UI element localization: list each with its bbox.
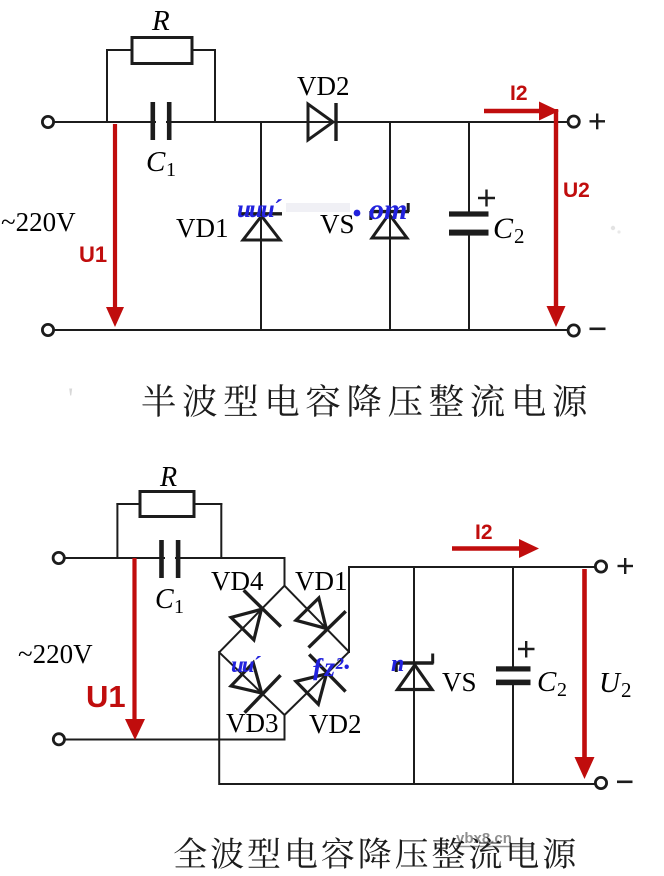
svg-text:VD2: VD2 [309, 709, 362, 739]
svg-text:1: 1 [174, 596, 184, 618]
label - polarity (half-wave) [590, 327, 606, 330]
svg-text:I2: I2 [475, 521, 493, 544]
capacitor C2 plates (half-wave, electrolytic) [449, 211, 489, 216]
wire: bridge edge bottom-left [219, 652, 284, 715]
title: half-wave capacitor step-down rectifier power supply [142, 384, 586, 417]
svg-text:VS: VS [320, 209, 355, 239]
terminal: AC input left-top (full-wave) [53, 552, 64, 563]
wire: top rail (AC line 1, half-wave) [53, 121, 572, 123]
current arrow I2 (half-wave) [484, 109, 542, 113]
wire: R-C1 parallel left branch [106, 49, 108, 122]
wire: VS branch vertical (full-wave) [413, 567, 415, 784]
svg-text:VD1: VD1 [295, 566, 348, 596]
wire: C2 branch vertical (full-wave) [512, 567, 514, 668]
svg-text:U: U [599, 667, 622, 699]
wire: R-C1 parallel right branch (full-wave) [220, 503, 222, 558]
svg-text:~220V: ~220V [18, 639, 93, 669]
diode VD2 (bridge, lower-right) [296, 674, 326, 704]
resistor R (half-wave) [132, 38, 192, 64]
label + polarity (half-wave) [590, 120, 606, 122]
node: bridge top corner (AC) [219, 586, 284, 653]
voltage arrow U1 (half-wave) [113, 124, 117, 309]
diode VD1 (shunt diode, half-wave) [243, 216, 280, 240]
svg-text:U2: U2 [563, 179, 590, 202]
faint leftover dots right of U2 [611, 226, 615, 230]
svg-text:2: 2 [514, 224, 525, 248]
terminal: AC input left-top [42, 116, 53, 127]
terminal: DC output + (half-wave) [568, 116, 579, 127]
wire: riser to bridge top corner [284, 557, 286, 587]
terminal: AC input left-bottom (full-wave) [53, 734, 64, 745]
title: full-wave capacitor step-down rectifier power supply [174, 837, 575, 869]
svg-text:uuu´: uuu´ [237, 196, 283, 223]
wire: C2 branch vertical (half-wave) [468, 122, 470, 213]
svg-text:ybx8.cn: ybx8.cn [456, 830, 512, 847]
wire: VD1 branch vertical [260, 122, 262, 330]
wire: DC- bottom rail (full-wave) [219, 783, 601, 785]
wire: bridge edge top-right [285, 586, 350, 652]
zener diode VS (half-wave regulator) [372, 214, 407, 238]
svg-text:~220V: ~220V [1, 207, 76, 237]
svg-text:VD1: VD1 [176, 213, 229, 243]
voltage arrow U2 (half-wave) [554, 109, 558, 307]
terminal: AC input left-bottom [42, 324, 53, 335]
svg-text:I2: I2 [510, 82, 528, 105]
capacitor C1 (half-wave) : gap mask [156, 110, 166, 134]
wire: bridge right corner riser (DC+) [348, 567, 350, 653]
voltage arrow U1 (full-wave) [132, 558, 136, 722]
wire: VS branch vertical [389, 122, 391, 330]
svg-text:U1: U1 [79, 242, 107, 267]
svg-text:R: R [159, 462, 177, 493]
capacitor C2 plates (full-wave) [496, 666, 531, 671]
voltage arrow U2 (full-wave) [582, 569, 587, 757]
polarity + of C2 (full-wave) [518, 648, 535, 650]
diode VD4 (bridge, upper-left) [231, 609, 261, 639]
terminal: DC output + (full-wave) [595, 561, 606, 572]
svg-text:U1: U1 [86, 679, 126, 714]
wire: R-C1 parallel right branch [214, 49, 216, 122]
svg-text:uu´: uu´ [231, 652, 262, 677]
label - polarity (full-wave) [617, 780, 633, 783]
watermark faint smudge [286, 203, 350, 212]
svg-text:C: C [537, 666, 557, 698]
diode VD1 (bridge, upper-right) [296, 598, 326, 628]
watermark fragment blue dot [354, 210, 361, 217]
svg-text:2: 2 [621, 678, 632, 702]
svg-text:C: C [146, 146, 166, 178]
wire: riser from bridge bottom corner [284, 714, 286, 741]
resistor R (full-wave) [140, 492, 194, 517]
capacitor C1 (full-wave) : gap mask [165, 546, 175, 570]
wire: DC+ rail (full-wave) [348, 566, 601, 568]
polarity + of C2 (half-wave) [478, 197, 495, 199]
svg-text:R: R [151, 5, 170, 37]
zener diode VS (full-wave regulator) [398, 665, 433, 690]
wire: bridge edge bottom-right [285, 652, 350, 715]
terminal: DC output - (half-wave) [568, 325, 579, 336]
svg-text:C: C [493, 212, 514, 245]
svg-text:VS: VS [442, 667, 477, 697]
svg-text:2: 2 [557, 679, 567, 701]
svg-text:ƒz²·: ƒz²· [311, 652, 350, 682]
capacitor C1 plates [151, 102, 156, 140]
svg-text:VD2: VD2 [297, 71, 350, 101]
diode VD2 (half-wave series diode) [308, 104, 333, 140]
svg-text:VD3: VD3 [226, 708, 279, 738]
terminal: DC output - (full-wave) [595, 777, 606, 788]
label + polarity (full-wave) [618, 565, 634, 567]
svg-text:': ' [68, 382, 73, 415]
svg-text:1: 1 [166, 159, 176, 181]
svg-text:C: C [155, 584, 174, 615]
wire: bridge left corner to bottom rail (DC-) [218, 651, 220, 785]
wire: R-C1 parallel left branch (full-wave) [116, 503, 118, 558]
wire: input line 2 (full-wave bottom left rail) [63, 739, 286, 741]
svg-text:n: n [391, 651, 404, 677]
current arrow I2 (full-wave) [452, 546, 521, 551]
capacitor C1 plates (full-wave) [159, 540, 164, 578]
svg-text:om: om [369, 193, 407, 226]
wire: bottom rail (AC line 2, half-wave) [53, 329, 574, 331]
wire: input line 1 (full-wave top left rail) [63, 557, 285, 559]
svg-text:VD4: VD4 [211, 566, 264, 596]
diode VD3 (bridge, lower-left) [231, 663, 262, 693]
